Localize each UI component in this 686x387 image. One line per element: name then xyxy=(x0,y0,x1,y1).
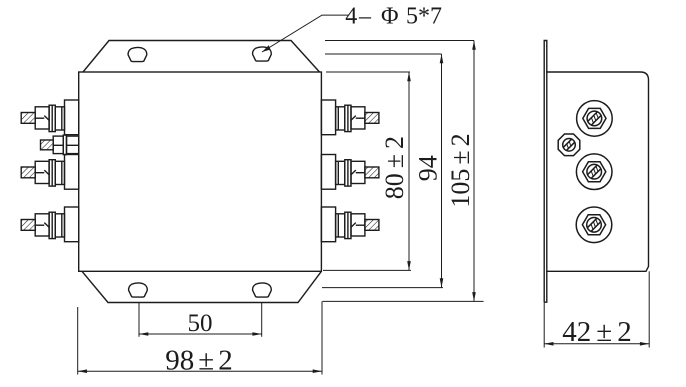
side view terminal B (middle) xyxy=(576,154,612,190)
arrows 80 xyxy=(407,72,411,81)
mounting hole bottom-left xyxy=(129,283,148,297)
arrows 42 xyxy=(544,342,553,346)
left terminal row2 (ground, small) xyxy=(41,135,79,155)
left terminal row1 xyxy=(21,100,78,135)
side view ground stud (small) xyxy=(558,134,580,156)
mounting hole top-right xyxy=(253,47,272,61)
left view: bottom mounting flange xyxy=(82,271,321,302)
left view: top mounting flange xyxy=(83,41,320,73)
svg-text:4–Φ5*7: 4–Φ5*7 xyxy=(345,4,442,30)
ext lines 98 dim xyxy=(77,307,79,375)
arrows 94 xyxy=(440,54,444,63)
right terminal row3 xyxy=(321,207,379,242)
svg-text:80±2: 80±2 xyxy=(380,136,409,199)
svg-text:105±2: 105±2 xyxy=(446,133,475,207)
svg-text:98±2: 98±2 xyxy=(165,345,232,377)
side view terminal C (bottom) xyxy=(576,207,612,243)
leader 4-phi5*7 xyxy=(262,15,349,52)
mounting hole top-left xyxy=(128,47,147,61)
dim line 98 xyxy=(78,370,322,372)
ext lines vertical dims xyxy=(325,40,474,42)
arrowheads xyxy=(78,41,650,374)
right terminal row1 xyxy=(321,100,379,135)
dim line 105 xyxy=(473,41,475,302)
side view terminal A (top) xyxy=(577,101,613,137)
left terminal row3 xyxy=(21,155,78,190)
ext lines 42 dim xyxy=(543,302,545,347)
dim line 42 xyxy=(544,343,649,345)
side view: mounting plate edge xyxy=(544,41,547,303)
side view: body outline xyxy=(547,72,649,271)
svg-text:94: 94 xyxy=(414,155,443,181)
dim line 94 xyxy=(441,54,443,288)
dim line 80 xyxy=(408,72,410,270)
ext lines 50 dim xyxy=(138,303,140,337)
dim line 50 xyxy=(139,333,262,335)
svg-text:50: 50 xyxy=(188,310,213,337)
left terminal row4 xyxy=(21,207,78,242)
right terminal row2 xyxy=(321,155,379,190)
arrows 105 xyxy=(472,41,476,50)
mounting hole bottom-right xyxy=(253,283,272,297)
dimension texts xyxy=(165,4,631,377)
svg-text:42±2: 42±2 xyxy=(562,316,631,348)
arrows 98 xyxy=(78,369,87,373)
arrows 50 xyxy=(139,332,148,336)
leader arrowhead xyxy=(262,45,271,52)
left view: filter body outline xyxy=(79,72,322,271)
